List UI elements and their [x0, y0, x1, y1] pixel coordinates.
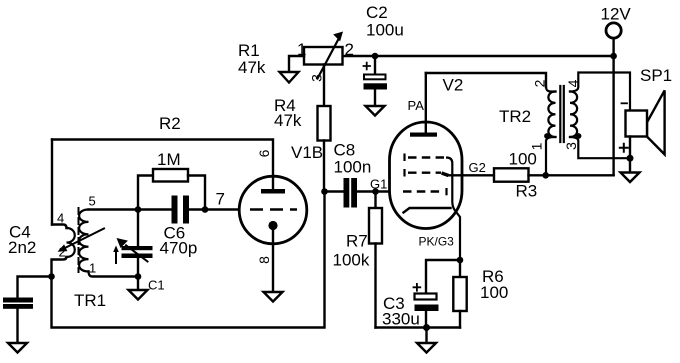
ground at C2	[366, 106, 385, 116]
svg-text:3: 3	[309, 74, 325, 82]
speaker SP1 minus sign	[622, 102, 628, 104]
wire C1 bottom lead	[137, 258, 139, 290]
terminal 12V	[606, 23, 621, 38]
transformer TR1 core (adjustable, dashed)	[78, 208, 80, 272]
ground at R1 pin1	[280, 72, 299, 83]
transformer TR2 secondary winding	[570, 73, 630, 159]
pin 6 label V1B (rotated)	[256, 149, 272, 157]
wire R7 bottom lead	[374, 244, 376, 328]
node ground junction bottom	[423, 324, 430, 331]
pin 7 label V1B	[216, 190, 225, 209]
wire TR1 pin1 to C1 node	[89, 272, 139, 277]
phase dot TR2 primary	[544, 133, 550, 139]
svg-text:8: 8	[256, 256, 272, 264]
label TR2	[499, 107, 531, 126]
label C3	[382, 294, 420, 329]
wire C4 node to C4	[18, 277, 52, 298]
wire TR1 pin5 to 1M node	[89, 208, 139, 210]
wire V2 anode to TR2 pin2	[426, 73, 546, 87]
capacitor C6	[172, 196, 190, 224]
anode V2	[410, 133, 437, 137]
node C4 junction	[48, 273, 55, 280]
ground at C1	[129, 290, 148, 300]
svg-text:1: 1	[529, 142, 545, 150]
node C1 / TR1 pin1 junction	[135, 273, 142, 280]
wire bottom cathode rail	[376, 326, 461, 328]
svg-text:1M: 1M	[157, 150, 181, 169]
node 1M left junction	[135, 206, 142, 213]
pin 1 label TR1	[89, 261, 96, 276]
pin 4 label TR1	[57, 211, 64, 226]
label R1	[238, 41, 266, 77]
label C8	[334, 141, 372, 177]
capacitor C3 plus sign	[414, 284, 421, 291]
pin 1 label TR2 (rotated)	[529, 142, 545, 150]
label R4	[274, 96, 302, 130]
svg-text:5: 5	[89, 194, 96, 209]
svg-text:V1B: V1B	[291, 143, 323, 162]
svg-text:4: 4	[57, 211, 64, 226]
wire TR1 pin4	[52, 225, 67, 229]
capacitor C8	[344, 178, 358, 208]
node PK junction	[457, 257, 464, 264]
label 1M	[157, 150, 181, 169]
svg-text:3: 3	[563, 142, 579, 150]
pin 2 label TR2 (rotated)	[532, 79, 548, 87]
pin 2 label TR1	[59, 245, 66, 260]
wire R1 pin3 to R4	[323, 65, 325, 107]
svg-text:C2: C2	[366, 3, 388, 22]
svg-text:100k: 100k	[333, 251, 370, 270]
svg-text:R3: R3	[516, 182, 538, 201]
resistor R4	[318, 106, 331, 141]
pin 4 label TR2 (rotated)	[565, 79, 581, 87]
wire V1B anode stem	[272, 177, 274, 190]
ground at C4	[8, 343, 27, 353]
anode V1B	[261, 189, 285, 194]
phase dot TR2 secondary	[576, 133, 582, 139]
cathode V2	[404, 208, 451, 213]
grid G2 V2 (dashed)	[405, 169, 449, 177]
wire C4 to ground	[16, 309, 18, 343]
svg-text:TR2: TR2	[499, 107, 531, 126]
node G1	[372, 188, 379, 195]
wire C2 top lead	[374, 56, 376, 74]
capacitor C2 plus sign	[364, 63, 371, 70]
svg-text:R7: R7	[346, 232, 368, 251]
wire 1M right lead	[188, 176, 205, 210]
label C1	[148, 278, 165, 293]
transformer TR1 coupling winding	[67, 228, 75, 257]
speaker SP1 plus sign	[620, 144, 628, 152]
svg-text:1: 1	[89, 261, 96, 276]
svg-text:470p: 470p	[160, 239, 198, 258]
wire R6 bottom lead	[459, 311, 461, 328]
svg-text:100: 100	[480, 283, 508, 302]
wire C1 top lead	[137, 210, 139, 247]
label PK/G3	[419, 235, 455, 249]
svg-text:G1: G1	[370, 177, 387, 192]
wire R4 to C8 node	[323, 141, 325, 192]
node speaker ground junction	[627, 155, 634, 162]
grid V1B (dashed)	[250, 208, 297, 210]
resistor R3	[494, 168, 529, 181]
pin 3 label R1 (rotated)	[309, 74, 325, 82]
svg-text:330u: 330u	[382, 310, 420, 329]
wire bus +12V rail	[343, 55, 614, 57]
wire TR1 pin2	[52, 257, 67, 277]
wire 1M left lead	[138, 176, 153, 210]
svg-text:PA: PA	[408, 98, 425, 113]
svg-text:12V: 12V	[601, 5, 632, 24]
capacitor C1 (variable)	[113, 238, 152, 263]
wire PK node to C3	[426, 260, 460, 293]
potentiometer R1	[304, 32, 343, 79]
svg-text:PK/G3: PK/G3	[419, 235, 455, 249]
wire C6 right lead to V1B grid	[189, 208, 250, 210]
resistor R6	[453, 277, 466, 311]
wire C8 left lead	[325, 190, 344, 192]
label R3	[509, 150, 538, 201]
transformer TR2 core	[560, 86, 564, 142]
pin 8 label V1B (rotated)	[256, 256, 272, 264]
label C2	[366, 3, 404, 40]
wire C3 bottom lead	[425, 311, 427, 328]
label G2	[469, 160, 486, 175]
label R6	[480, 267, 508, 302]
svg-text:7: 7	[216, 190, 225, 209]
ground at cathode rail	[417, 343, 436, 353]
wire V1B cathode to ground	[272, 227, 274, 292]
speaker SP1	[626, 90, 665, 154]
label V1B	[291, 143, 323, 162]
label TR1	[74, 291, 106, 310]
svg-text:SP1: SP1	[640, 66, 672, 85]
wire G2 to R3	[447, 174, 494, 176]
capacitor C2	[364, 75, 388, 90]
ground at V1B cathode	[264, 292, 283, 302]
svg-text:C1: C1	[148, 278, 165, 293]
svg-text:G2: G2	[469, 160, 486, 175]
node TR2 pin1 junction	[542, 172, 549, 179]
pin 3 label TR2 (rotated)	[563, 142, 579, 150]
label C4	[8, 223, 36, 258]
wire speaker ground stem	[629, 158, 631, 172]
svg-text:47k: 47k	[238, 58, 266, 77]
label SP1	[640, 66, 672, 85]
node C2 top junction	[372, 53, 379, 60]
triode V1B envelope	[239, 176, 307, 244]
wire V2 anode stem	[425, 73, 427, 133]
wire R1 pin1 to ground	[289, 56, 304, 72]
wire 12V down to R3 rail	[612, 38, 614, 175]
wire PK node to R6	[459, 260, 461, 277]
wire C2 bottom lead	[374, 90, 376, 106]
ground at speaker	[621, 173, 640, 183]
label C6	[160, 224, 198, 258]
wire ground stem bottom	[425, 328, 427, 343]
label PA	[408, 98, 425, 113]
adjustment arrow TR1	[58, 229, 105, 252]
svg-text:2: 2	[345, 40, 354, 59]
wire R3 to 12V rail	[529, 174, 614, 176]
svg-text:R2: R2	[159, 114, 181, 133]
wire speaker plus to node	[629, 137, 631, 159]
capacitor C4	[3, 298, 33, 309]
label V2	[443, 76, 464, 95]
label G1	[370, 177, 387, 192]
node C6 right junction	[202, 206, 209, 213]
transformer TR2 primary winding	[546, 87, 556, 175]
resistor 1M	[153, 169, 188, 182]
capacitor C3	[415, 294, 439, 312]
pin 1 label R1	[297, 40, 306, 59]
label R2	[159, 114, 181, 133]
pin 5 label TR1	[89, 194, 96, 209]
svg-text:100n: 100n	[334, 158, 372, 177]
label 12V	[601, 5, 632, 24]
wire R7 top lead	[374, 192, 376, 209]
wire C6 left lead	[138, 208, 172, 210]
label R7	[333, 232, 370, 270]
svg-text:100u: 100u	[366, 21, 404, 40]
pin 2 label R1	[345, 40, 354, 59]
transformer TR1 main winding	[79, 210, 88, 272]
node 12V bus junction	[610, 53, 617, 60]
svg-text:47k: 47k	[274, 111, 302, 130]
wire R2 feedback top	[52, 140, 273, 177]
svg-text:2n2: 2n2	[8, 238, 36, 257]
grid G1 V2 (dashed)	[403, 188, 447, 195]
wire R2 feedback bottom	[52, 192, 325, 328]
wire C8 right lead to G1	[357, 190, 403, 192]
wire R2 feedback left	[51, 140, 53, 225]
svg-text:100: 100	[509, 150, 537, 169]
svg-text:V2: V2	[443, 76, 464, 95]
cathode V1B	[268, 221, 277, 230]
node C8 left junction	[321, 188, 328, 195]
pentode V2 envelope	[390, 122, 463, 229]
grid G3 V2 (dashed)	[405, 154, 461, 261]
svg-text:TR1: TR1	[74, 291, 106, 310]
svg-text:6: 6	[256, 149, 272, 157]
resistor R7	[369, 208, 382, 244]
